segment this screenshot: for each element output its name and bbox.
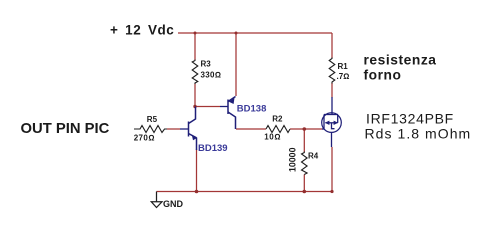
svg-text:BD139: BD139 [198,143,228,154]
svg-text:+ 12 Vdc: + 12 Vdc [110,23,174,38]
svg-text:BD138: BD138 [237,103,267,114]
svg-text:R2: R2 [272,115,283,124]
svg-text:.7Ω: .7Ω [337,72,350,81]
svg-text:R4: R4 [308,151,319,160]
svg-text:resistenza: resistenza [364,52,437,67]
svg-text:Rds 1.8 mOhm: Rds 1.8 mOhm [365,126,472,142]
svg-text:OUT PIN PIC: OUT PIN PIC [21,121,110,137]
svg-text:10Ω: 10Ω [264,133,281,142]
svg-text:330Ω: 330Ω [201,70,222,79]
svg-text:IRF1324PBF: IRF1324PBF [366,111,454,127]
svg-text:R5: R5 [147,115,158,124]
svg-text:270Ω: 270Ω [134,134,155,143]
svg-text:GND: GND [163,199,184,209]
svg-text:10000: 10000 [288,147,298,172]
svg-text:R3: R3 [201,59,212,68]
svg-text:R1: R1 [338,62,349,71]
svg-text:forno: forno [364,67,402,82]
